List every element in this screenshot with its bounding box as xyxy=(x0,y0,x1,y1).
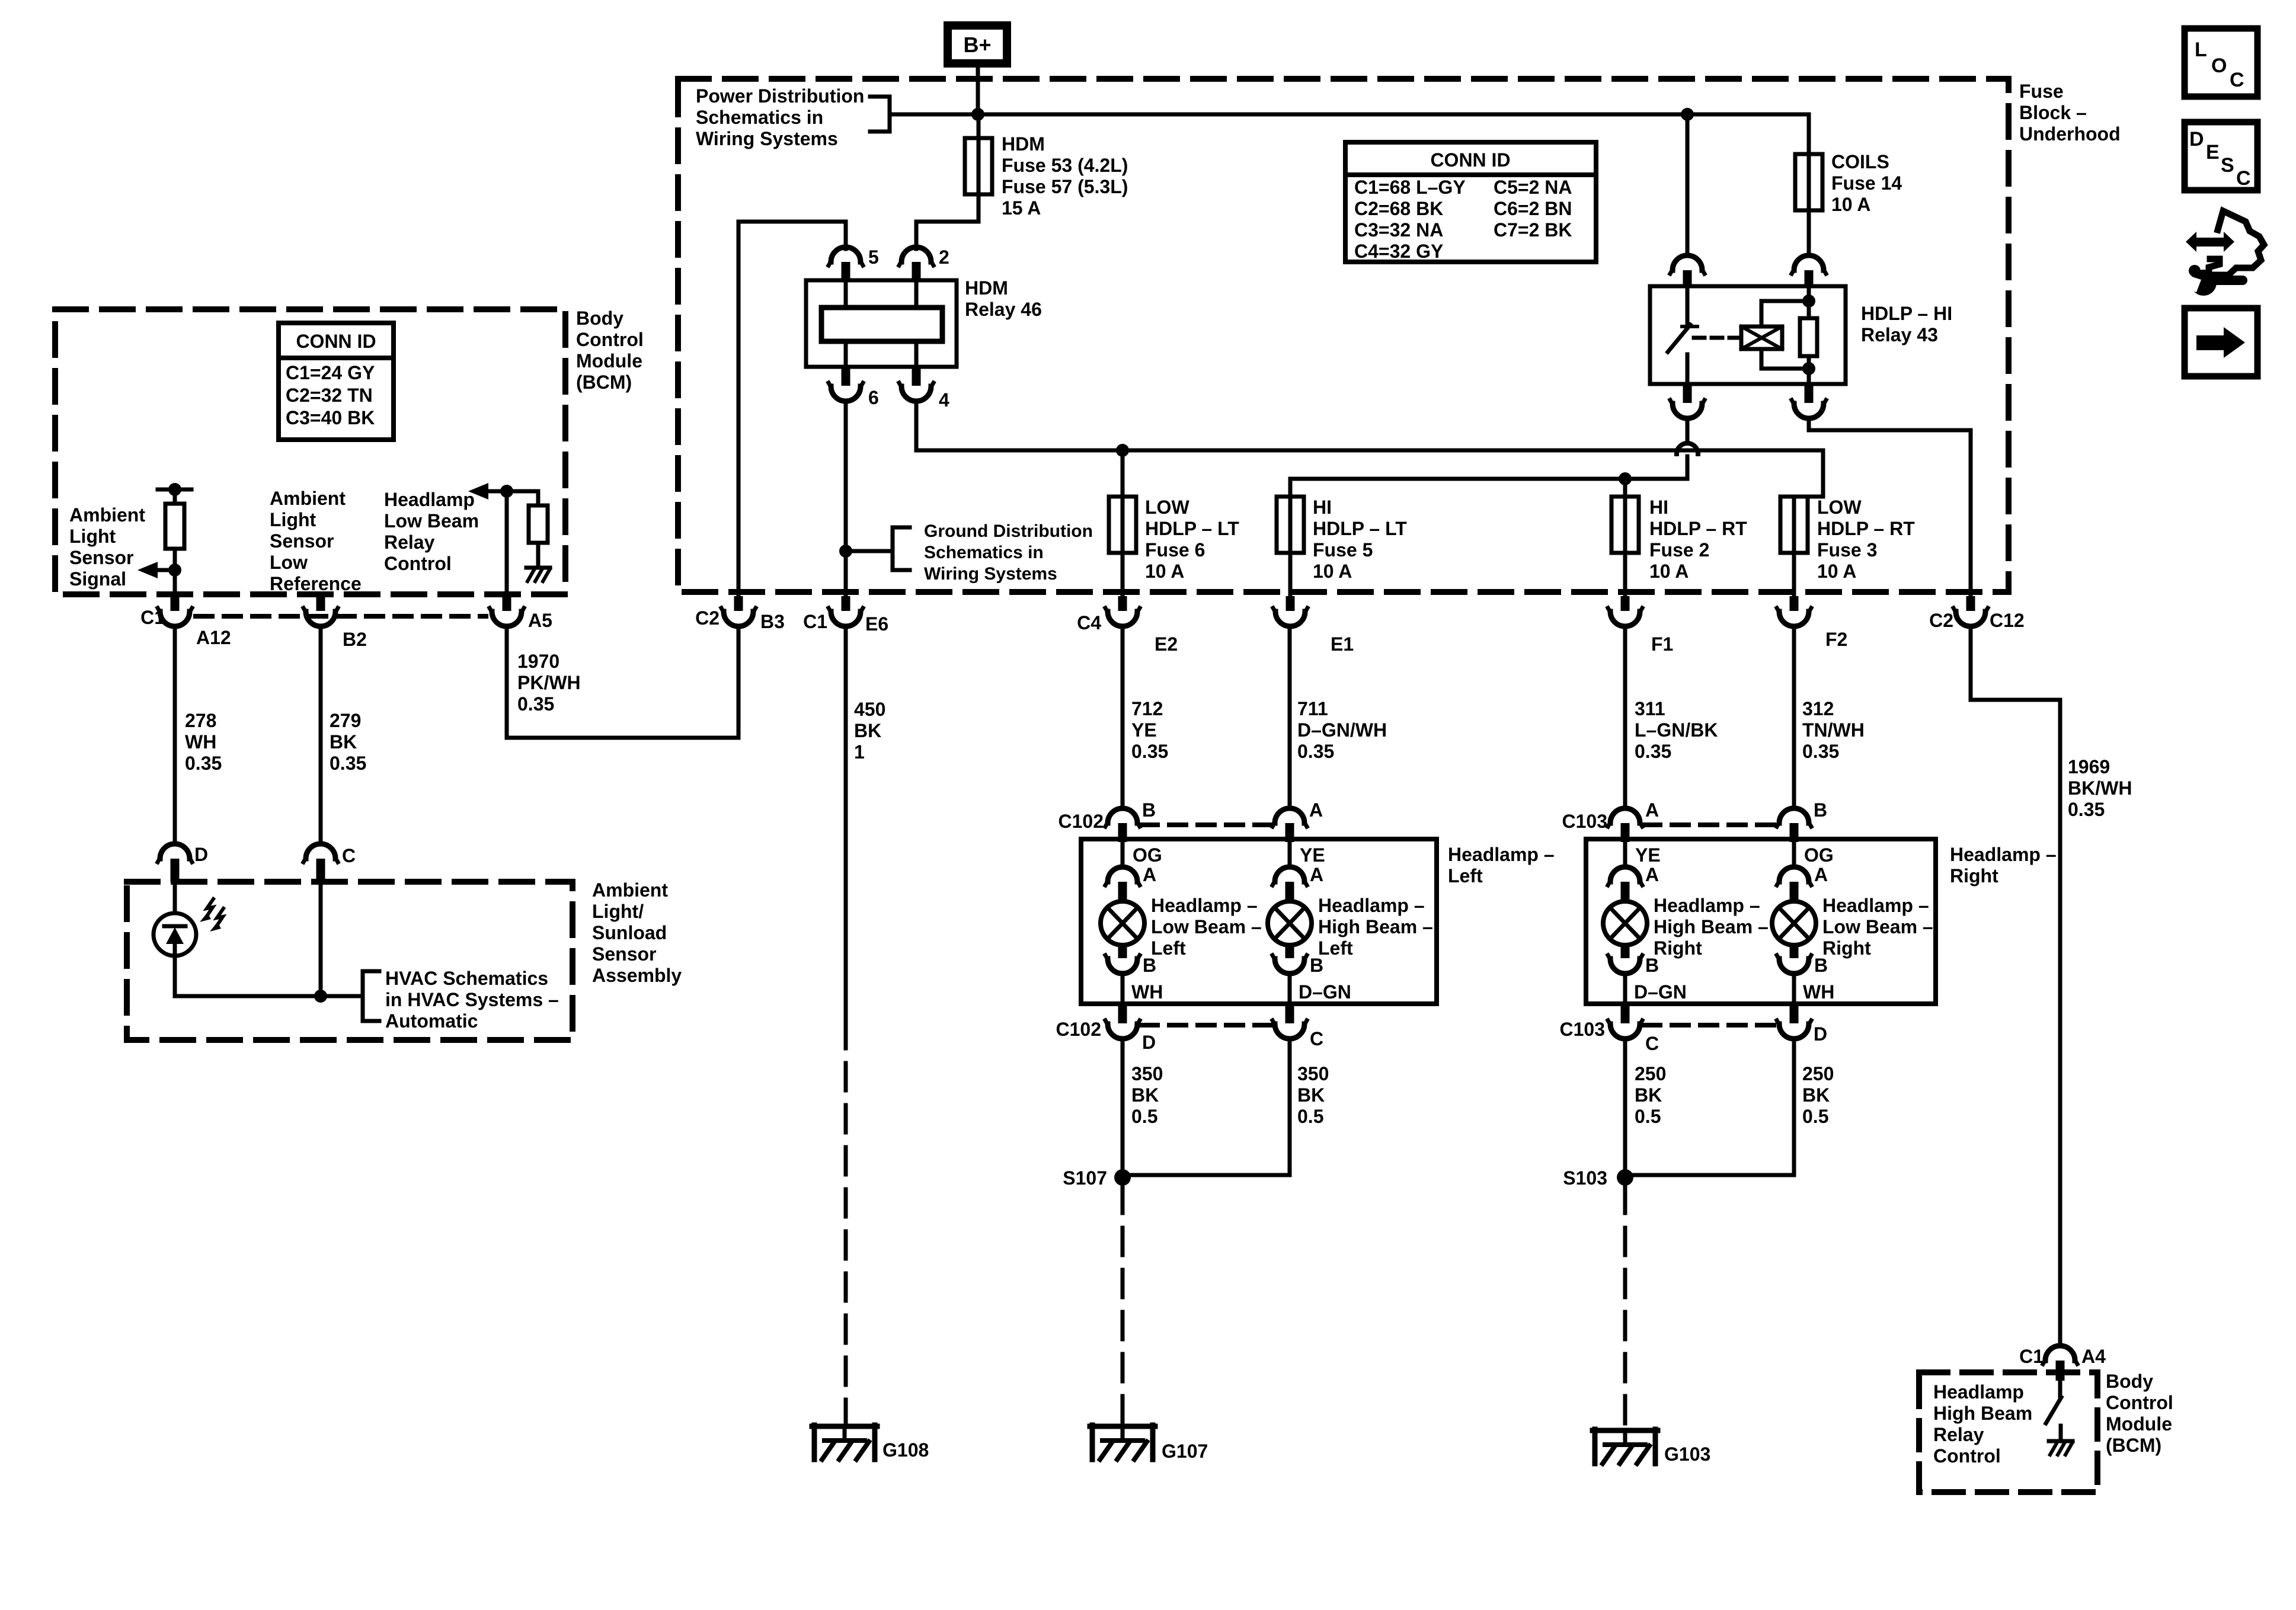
fuse LOW HDLP-RT Fuse 3 10A xyxy=(1780,497,1808,553)
svg-text:C1: C1 xyxy=(140,607,165,628)
svg-text:G107: G107 xyxy=(1162,1441,1208,1462)
svg-text:C: C xyxy=(1645,1033,1659,1054)
svg-text:HIHDLP – RTFuse 210 A: HIHDLP – RTFuse 210 A xyxy=(1649,497,1747,582)
svg-text:C4: C4 xyxy=(1077,612,1101,633)
label Ambient Light Sensor Signal xyxy=(69,504,145,590)
svg-text:OG: OG xyxy=(1133,844,1162,866)
label wire 250 BK 0.5 right xyxy=(1802,1063,1834,1127)
wire 450 BK solid xyxy=(844,627,848,1021)
ground BCM internal bottom xyxy=(2049,1441,2073,1455)
label wire 712 YE 0.35 xyxy=(1131,698,1168,762)
wire bus to relay 43 switch pin xyxy=(1686,114,1690,255)
svg-text:HDMFuse 53 (4.2L)Fuse 57 (5.3L: HDMFuse 53 (4.2L)Fuse 57 (5.3L)15 A xyxy=(1002,133,1128,219)
svg-text:B: B xyxy=(1814,799,1827,821)
arrow headlamp low beam relay control xyxy=(468,483,538,500)
relay HDM Relay 46 pin 6 connector xyxy=(829,367,879,408)
relay HDLP-HI Relay 43 coil-side top connector xyxy=(1792,255,1826,286)
svg-text:D–GN: D–GN xyxy=(1299,981,1351,1003)
label Body Control Module BCM xyxy=(576,308,644,393)
relay 43 actuator dashed link xyxy=(1694,336,1739,340)
svg-text:AmbientLightSensorLowReference: AmbientLightSensorLowReference xyxy=(270,488,362,594)
node A5 junction xyxy=(500,485,513,498)
svg-text:A: A xyxy=(1814,864,1828,885)
svg-text:C: C xyxy=(342,845,356,866)
wire 312 TN/WH xyxy=(1792,627,1796,808)
svg-text:Headlamp –High Beam –Right: Headlamp –High Beam –Right xyxy=(1654,895,1769,959)
svg-text:L: L xyxy=(2195,39,2207,61)
svg-text:C1=68 L–GYC2=68 BKC3=32 NAC4=3: C1=68 L–GYC2=68 BKC3=32 NAC4=32 GY xyxy=(1354,177,1466,262)
svg-text:312TN/WH0.35: 312TN/WH0.35 xyxy=(1802,698,1865,762)
BCM CONN ID table xyxy=(279,323,394,440)
fuse HI HDLP-RT Fuse 2 10A xyxy=(1611,497,1639,553)
ground distribution bracket xyxy=(893,527,910,570)
svg-text:S103: S103 xyxy=(1563,1167,1607,1189)
relay HDM Relay 46 pin 4 connector xyxy=(899,367,949,411)
label HDM Fuse 53 57 15A xyxy=(1002,133,1128,219)
svg-text:CONN ID: CONN ID xyxy=(1430,149,1510,171)
connector row C102 bottom dashed xyxy=(1141,1023,1271,1028)
svg-text:G103: G103 xyxy=(1664,1443,1710,1465)
headlamp left box xyxy=(1081,839,1437,1004)
svg-text:YE: YE xyxy=(1635,844,1661,866)
svg-text:F2: F2 xyxy=(1825,629,1847,650)
label LOW HDLP-RT Fuse 3 xyxy=(1817,497,1915,582)
fuse block - underhood dashed box xyxy=(678,79,2009,592)
wire fuse 6 to connector C4 E2 xyxy=(1121,497,1125,596)
wire S107 to G107 dashed xyxy=(1121,1186,1125,1423)
wire HI feed to fuse 2 xyxy=(1623,479,1627,497)
wire 250 BK right xyxy=(1625,1039,1794,1175)
label wire 279 BK 0.35 xyxy=(330,710,366,774)
connector C102 pin B xyxy=(1059,799,1156,842)
svg-text:YE: YE xyxy=(1300,844,1325,866)
svg-text:6: 6 xyxy=(868,387,879,408)
svg-text:BodyControlModule(BCM): BodyControlModule(BCM) xyxy=(2106,1371,2173,1456)
lamp Headlamp High Beam Right xyxy=(1603,842,1769,1003)
svg-text:311L–GN/BK0.35: 311L–GN/BK0.35 xyxy=(1635,698,1718,762)
svg-text:E2: E2 xyxy=(1155,633,1178,655)
wire B+ to bus xyxy=(976,68,980,114)
headlamp right box xyxy=(1586,839,1936,1004)
label wire 1970 PK/WH 0.35 xyxy=(517,651,581,715)
node B+ bus / B+ feed xyxy=(971,108,984,121)
svg-text:A: A xyxy=(1143,864,1156,885)
label LOW HDLP-LT Fuse 6 xyxy=(1145,497,1239,582)
node B+ bus / relay 43 feed xyxy=(1681,108,1694,121)
wire low bus to fuse 3 xyxy=(1794,450,1823,497)
wire photodiode to junction xyxy=(175,956,363,996)
svg-text:279BK0.35: 279BK0.35 xyxy=(330,710,366,774)
svg-text:250BK0.5: 250BK0.5 xyxy=(1802,1063,1834,1127)
lamp Headlamp Low Beam Right xyxy=(1772,842,1933,1003)
connector C103 pin A xyxy=(1562,799,1659,842)
svg-text:Headlamp –Low Beam –Left: Headlamp –Low Beam –Left xyxy=(1151,895,1262,959)
svg-text:D–GN: D–GN xyxy=(1634,981,1687,1003)
photodiode ambient light sensor xyxy=(154,882,196,956)
label wire 350 BK 0.5 right xyxy=(1297,1063,1329,1127)
node HI feed / fuse 2 tap xyxy=(1619,472,1632,485)
resistor BCM ambient pull-up xyxy=(165,489,184,570)
label HVAC Schematics in HVAC Systems Automatic xyxy=(385,968,559,1032)
connector C1 pin B2 xyxy=(303,592,367,650)
wire B+ bus xyxy=(890,113,1809,117)
svg-text:C5=2 NAC6=2 BNC7=2 BK: C5=2 NAC6=2 BNC7=2 BK xyxy=(1494,177,1572,241)
svg-text:Headlamp –Low Beam –Right: Headlamp –Low Beam –Right xyxy=(1822,895,1933,959)
wire 278 WH xyxy=(173,627,177,844)
label wire 350 BK 0.5 left xyxy=(1131,1063,1163,1127)
power distribution bracket xyxy=(870,97,890,132)
wire COILS fuse to relay 43 pin xyxy=(1807,154,1811,255)
label wire 711 D-GN/WH 0.35 xyxy=(1297,698,1387,762)
wire relay 46 pin 6 to E6 xyxy=(844,401,848,596)
svg-text:C: C xyxy=(1310,1028,1323,1049)
svg-text:A4: A4 xyxy=(2081,1346,2106,1367)
node low bus / fuse 6 tap xyxy=(1116,444,1129,457)
svg-text:WH: WH xyxy=(1803,981,1834,1003)
svg-text:HDMRelay 46: HDMRelay 46 xyxy=(965,277,1042,320)
connector pin C sensor xyxy=(303,844,356,882)
connector pin F2 xyxy=(1777,596,1847,650)
ambient light/sunload sensor assembly dashed box xyxy=(127,882,573,1040)
label Ambient Light Sunload Sensor Assembly xyxy=(592,879,682,986)
svg-text:A: A xyxy=(1310,864,1323,885)
wire C pin down xyxy=(319,882,323,996)
svg-text:C1: C1 xyxy=(2019,1346,2044,1367)
svg-text:Headlamp –High Beam –Left: Headlamp –High Beam –Left xyxy=(1318,895,1433,959)
splice S103 xyxy=(1563,1167,1633,1189)
svg-text:C: C xyxy=(2236,167,2251,190)
svg-text:1969BK/WH0.35: 1969BK/WH0.35 xyxy=(2068,756,2132,820)
svg-text:4: 4 xyxy=(939,389,949,411)
lamp Headlamp Low Beam Left xyxy=(1101,842,1262,1003)
svg-text:D: D xyxy=(194,844,208,865)
svg-text:FuseBlock –Underhood: FuseBlock –Underhood xyxy=(2019,81,2121,145)
svg-text:C1=24 GYC2=32 TNC3=40 BK: C1=24 GYC2=32 TNC3=40 BK xyxy=(286,362,375,428)
wire 311 L-GN/BK xyxy=(1623,627,1627,808)
svg-text:HeadlampHigh BeamRelayControl: HeadlampHigh BeamRelayControl xyxy=(1933,1381,2032,1467)
label wire 450 BK 1 xyxy=(854,699,885,763)
connector row C102 dashed xyxy=(1141,822,1271,827)
svg-text:Power DistributionSchematics i: Power DistributionSchematics inWiring Sy… xyxy=(696,85,864,149)
fuse HI HDLP-LT Fuse 5 10A xyxy=(1277,497,1304,553)
wire 712 YE xyxy=(1121,627,1125,808)
svg-text:C2: C2 xyxy=(1929,610,1953,631)
svg-text:250BK0.5: 250BK0.5 xyxy=(1635,1063,1666,1127)
svg-text:LOWHDLP – RTFuse 310 A: LOWHDLP – RTFuse 310 A xyxy=(1817,497,1915,582)
wire to pin A12 xyxy=(173,570,177,596)
connector C102 pin D xyxy=(1056,1006,1156,1053)
svg-text:5: 5 xyxy=(868,247,879,268)
svg-text:B2: B2 xyxy=(343,629,367,650)
icon service wrench with arrows xyxy=(2179,211,2264,296)
label wire 250 BK 0.5 left xyxy=(1635,1063,1666,1127)
photodiode light arrows xyxy=(200,899,223,932)
label Fuse Block - Underhood xyxy=(2019,81,2121,145)
svg-text:450BK1: 450BK1 xyxy=(854,699,885,763)
HVAC bracket xyxy=(363,971,379,1021)
svg-text:E6: E6 xyxy=(865,613,888,635)
node ground distribution junction xyxy=(839,545,852,558)
svg-text:A: A xyxy=(1645,799,1659,821)
icon LOC box xyxy=(2185,28,2257,97)
resistor BCM low beam driver xyxy=(529,491,548,568)
wire 279 BK xyxy=(319,627,323,844)
wire relay 46 pin 4 low-beam bus xyxy=(916,401,1823,450)
svg-text:O: O xyxy=(2211,55,2227,77)
ground G103 xyxy=(1593,1429,1710,1465)
wire 1969 BK/WH xyxy=(1971,627,2060,1346)
connector C102 pin A xyxy=(1272,799,1323,842)
wire 250 BK left xyxy=(1623,1039,1627,1177)
svg-text:D: D xyxy=(1142,1032,1156,1053)
wire fuse 5 to connector E1 xyxy=(1288,497,1293,596)
wire 1970 PK/WH xyxy=(507,627,738,738)
node sensor common junction xyxy=(314,990,327,1003)
label wire 311 L-GN/BK 0.35 xyxy=(1635,698,1718,762)
fuse HDM Fuse 53/57 15A xyxy=(965,138,992,194)
svg-text:1970PK/WH0.35: 1970PK/WH0.35 xyxy=(517,651,581,715)
svg-text:S: S xyxy=(2221,154,2234,177)
svg-text:AmbientLightSensorSignal: AmbientLightSensorSignal xyxy=(69,504,145,590)
ground G108 xyxy=(812,1425,929,1461)
connector C103 pin C xyxy=(1560,1006,1659,1054)
relay HDLP-HI Relay 43 body xyxy=(1650,286,1846,384)
svg-text:711D–GN/WH0.35: 711D–GN/WH0.35 xyxy=(1297,698,1387,762)
svg-text:B+: B+ xyxy=(963,33,991,57)
svg-text:C102: C102 xyxy=(1059,811,1104,832)
svg-text:HIHDLP – LTFuse 510 A: HIHDLP – LTFuse 510 A xyxy=(1313,497,1407,582)
label Headlamp Low Beam Relay Control xyxy=(384,489,479,574)
ground G107 xyxy=(1090,1425,1208,1462)
wire 350 BK left xyxy=(1121,1039,1125,1177)
relay HDM Relay 46 body xyxy=(806,280,957,367)
wire fuse 2 to connector F1 xyxy=(1623,497,1627,596)
wire relay 43 coil return xyxy=(1809,418,1971,596)
svg-text:HVAC Schematicsin HVAC Systems: HVAC Schematicsin HVAC Systems –Automati… xyxy=(385,968,559,1032)
svg-text:C12: C12 xyxy=(1990,610,2025,631)
body control module (bottom) dashed box xyxy=(1919,1372,2097,1492)
svg-text:BodyControlModule(BCM): BodyControlModule(BCM) xyxy=(576,308,644,393)
connector C1 pin A12 xyxy=(140,596,231,648)
wire 711 D-GN/WH xyxy=(1288,627,1292,808)
label HI HDLP-LT Fuse 5 xyxy=(1313,497,1407,582)
wire hop to HI feed xyxy=(1686,456,1690,479)
wire bus to HDM fuse xyxy=(977,114,981,222)
wire S103 to G103 dashed xyxy=(1623,1186,1627,1427)
node ambient signal junction xyxy=(168,564,181,577)
arrow ambient light sensor signal xyxy=(137,562,175,578)
label Headlamp Left xyxy=(1448,844,1555,886)
svg-text:2: 2 xyxy=(939,247,949,268)
label Headlamp High Beam Relay Control xyxy=(1933,1381,2032,1467)
svg-text:G108: G108 xyxy=(882,1439,929,1461)
relay HDM Relay 46 pin 2 connector xyxy=(899,247,949,280)
relay 43 switch xyxy=(1668,286,1697,384)
relay 43 coil-side bottom connector xyxy=(1792,384,1826,418)
relay 43 coil box xyxy=(1738,327,1782,349)
wire relay 43 output to hop xyxy=(1686,418,1690,443)
svg-text:CONN ID: CONN ID xyxy=(296,331,376,352)
svg-text:WH: WH xyxy=(1131,981,1163,1003)
label wire 278 WH 0.35 xyxy=(185,710,222,774)
icon arrow box xyxy=(2185,308,2257,376)
lamp Headlamp High Beam Left xyxy=(1268,842,1433,1003)
svg-text:AmbientLight/SunloadSensorAsse: AmbientLight/SunloadSensorAssembly xyxy=(592,879,682,986)
wire junction to ground bracket xyxy=(846,549,893,553)
fuse COILS Fuse 14 10A xyxy=(1795,154,1822,210)
label Ambient Light Sensor Low Reference xyxy=(270,488,362,594)
wire 350 BK right xyxy=(1123,1039,1290,1175)
node pull-up top xyxy=(168,483,181,496)
connector C102 pin C xyxy=(1272,1006,1323,1049)
label HI HDLP-RT Fuse 2 xyxy=(1649,497,1747,582)
wire relay 46 pin 5 to B3 xyxy=(738,222,846,596)
svg-text:A5: A5 xyxy=(528,610,552,631)
wire HI feed line xyxy=(1290,479,1687,497)
svg-text:C2: C2 xyxy=(695,607,720,629)
splice S107 xyxy=(1063,1167,1131,1189)
svg-text:A: A xyxy=(1645,864,1659,885)
relay 43 coil bottom wire xyxy=(1761,349,1815,375)
svg-text:Ground DistributionSchematics: Ground DistributionSchematics inWiring S… xyxy=(924,521,1093,584)
svg-text:OG: OG xyxy=(1804,844,1834,866)
label wire 1969 BK/WH 0.35 xyxy=(2068,756,2132,820)
svg-text:HDLP – HIRelay 43: HDLP – HIRelay 43 xyxy=(1861,303,1952,345)
connector C2 pin C12 xyxy=(1929,596,2025,631)
BCM connector dashed row xyxy=(196,614,486,619)
wire crossover hop xyxy=(1677,443,1698,454)
svg-text:350BK0.5: 350BK0.5 xyxy=(1297,1063,1329,1127)
relay 43 coil top wire xyxy=(1761,295,1815,327)
wire HDM fuse to relay 46 pin 2 xyxy=(916,222,978,249)
label Headlamp Right xyxy=(1950,844,2057,886)
BCM high beam driver switch xyxy=(2046,1381,2061,1441)
relay 43 resistor xyxy=(1800,286,1817,384)
svg-text:E1: E1 xyxy=(1331,633,1354,655)
body control module dashed box xyxy=(55,309,565,594)
connector C103 pin B xyxy=(1777,799,1827,842)
wire 450 BK dashed to G108 xyxy=(844,1021,848,1423)
svg-text:B3: B3 xyxy=(760,611,785,632)
connector pin F1 xyxy=(1608,596,1673,655)
svg-text:COILSFuse 1410 A: COILSFuse 1410 A xyxy=(1831,151,1902,215)
label HDLP-HI Relay 43 xyxy=(1861,303,1952,345)
svg-text:C102: C102 xyxy=(1056,1019,1102,1040)
label COILS Fuse 14 10A xyxy=(1831,151,1902,215)
fuse block CONN ID table xyxy=(1345,142,1596,262)
wire fuse 3 to connector F2 xyxy=(1792,497,1796,596)
label HDM Relay 46 xyxy=(965,277,1042,320)
BCM ambient sensor pull-up top bar xyxy=(158,488,191,492)
label Power Distribution Schematics in Wiring Systems xyxy=(696,85,864,149)
connector row C103 bottom dashed xyxy=(1643,1023,1775,1028)
svg-text:C1: C1 xyxy=(803,611,827,632)
icon DESC box xyxy=(2185,122,2257,190)
svg-text:D: D xyxy=(1814,1023,1827,1045)
svg-text:HeadlampLow BeamRelayControl: HeadlampLow BeamRelayControl xyxy=(384,489,479,574)
svg-text:D: D xyxy=(2189,128,2204,151)
connector pin E1 xyxy=(1273,596,1354,655)
wire A5 junction to pin xyxy=(505,491,509,596)
connector row C103 dashed xyxy=(1643,822,1775,827)
svg-text:F1: F1 xyxy=(1651,633,1673,655)
svg-text:B: B xyxy=(1142,799,1156,821)
connector pin D sensor xyxy=(158,844,208,882)
connector C4 pin E2 xyxy=(1077,596,1178,655)
svg-text:A: A xyxy=(1309,799,1323,821)
svg-text:C103: C103 xyxy=(1560,1019,1606,1040)
svg-text:Headlamp –Right: Headlamp –Right xyxy=(1950,844,2057,886)
connector C1 pin E6 xyxy=(803,596,888,635)
relay HDM Relay 46 pin 5 connector xyxy=(829,247,879,280)
svg-text:278WH0.35: 278WH0.35 xyxy=(185,710,222,774)
svg-text:C103: C103 xyxy=(1562,811,1608,832)
connector C103 pin D xyxy=(1777,1006,1827,1045)
label Ground Distribution Schematics in Wiring Systems xyxy=(924,521,1093,584)
svg-text:S107: S107 xyxy=(1063,1167,1107,1189)
relay HDLP-HI Relay 43 switch-side top connector xyxy=(1670,255,1705,286)
label wire 312 TN/WH 0.35 xyxy=(1802,698,1865,762)
connector C1 pin A4 xyxy=(2019,1346,2106,1381)
svg-text:LOWHDLP – LTFuse 610 A: LOWHDLP – LTFuse 610 A xyxy=(1145,497,1239,582)
fuse LOW HDLP-LT Fuse 6 10A xyxy=(1109,450,1136,553)
svg-text:A12: A12 xyxy=(196,627,231,648)
wire bus to COILS fuse xyxy=(1807,114,1811,154)
B+ power node box xyxy=(948,25,1007,63)
connector C2 pin B3 xyxy=(695,596,785,632)
svg-text:Headlamp –Left: Headlamp –Left xyxy=(1448,844,1555,886)
svg-text:350BK0.5: 350BK0.5 xyxy=(1131,1063,1163,1127)
connector C1 pin A5 xyxy=(490,596,552,631)
svg-text:C: C xyxy=(2230,69,2244,91)
ground BCM internal xyxy=(526,568,550,581)
relay 43 switch-side bottom connector xyxy=(1670,384,1705,418)
svg-text:E: E xyxy=(2206,141,2220,164)
label Body Control Module BCM bottom xyxy=(2106,1371,2173,1456)
svg-text:712YE0.35: 712YE0.35 xyxy=(1131,698,1168,762)
